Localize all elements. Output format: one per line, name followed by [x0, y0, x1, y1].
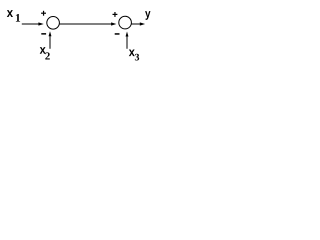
node x3 label	[129, 50, 139, 61]
summing junction S2	[119, 16, 132, 29]
output wire y	[132, 22, 146, 25]
node x2 label	[40, 47, 50, 59]
node y label	[145, 11, 150, 20]
summing junction S1	[47, 17, 60, 30]
wire x2 to summing junction S1	[49, 31, 52, 49]
wire S1 to summing junction S2	[60, 22, 117, 25]
node x1 label	[7, 10, 20, 21]
wire x3 to summing junction S2	[126, 32, 129, 49]
minus sign (x3 input of S2)	[115, 33, 120, 35]
plus sign (input of S2 from S1)	[113, 12, 118, 17]
wire x1 to summing junction S1	[22, 22, 44, 25]
plus sign (x1 input of S1)	[41, 11, 46, 16]
minus sign (x2 input of S1)	[41, 33, 46, 35]
